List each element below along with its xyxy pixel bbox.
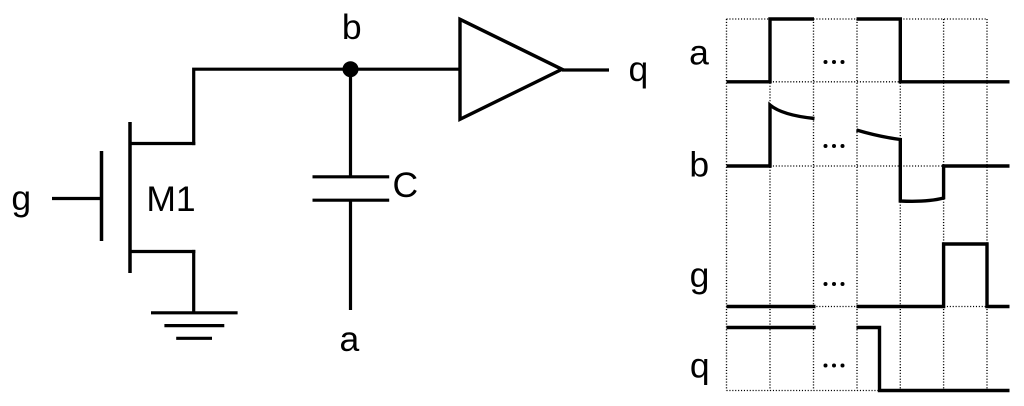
label g (waveform) [690,255,710,295]
label a (waveform) [689,33,709,73]
svg-text:a: a [340,319,360,359]
label C [392,165,418,205]
waveform a [727,19,1010,82]
timing grid (dotted) [727,19,988,391]
wire capacitor to terminal a [349,200,352,310]
capacitor C [313,177,390,200]
svg-text:b: b [689,145,709,185]
label q (output) [629,49,649,89]
svg-text:M1: M1 [146,179,195,219]
node b junction dot [343,61,359,77]
svg-text:q: q [690,346,710,386]
transistor M1 [102,122,196,273]
svg-text:q: q [629,49,649,89]
svg-text:b: b [342,7,362,47]
wire source to ground [192,250,195,313]
wire node b to buffer input [351,68,462,71]
svg-text:a: a [689,33,709,73]
svg-text:g: g [11,178,31,218]
wire buffer output [562,68,609,71]
ellipsis b [824,144,845,148]
ellipsis q [824,364,845,368]
label b [342,7,362,47]
wire node b to capacitor [349,69,352,177]
label q (waveform) [690,346,710,386]
wire gate lead [52,197,101,200]
waveform b [727,105,1010,201]
ground [151,313,238,339]
label M1 [146,179,195,219]
ellipsis g [824,282,845,286]
svg-text:g: g [690,255,710,295]
label a (terminal) [340,319,360,359]
waveform q [727,328,1010,391]
buffer amplifier [460,19,562,119]
ellipsis a [824,60,845,64]
wire drain to node b [194,69,352,145]
label g [11,178,31,218]
waveform g [727,244,1010,307]
label b (waveform) [689,145,709,185]
svg-text:C: C [392,165,418,205]
